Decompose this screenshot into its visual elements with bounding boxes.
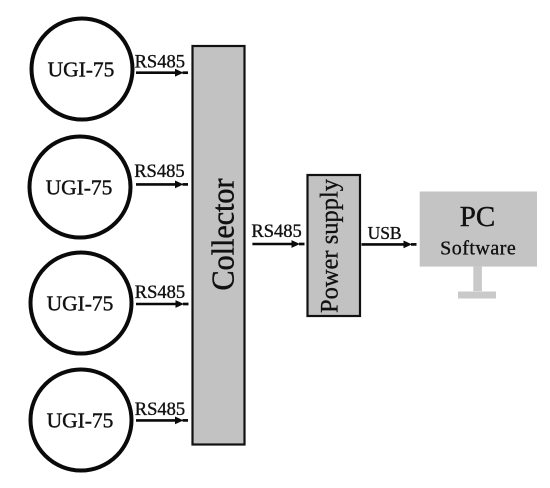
arrow row 1 bbox=[136, 71, 177, 74]
svg-text:RS485: RS485 bbox=[135, 400, 185, 420]
svg-text:RS485: RS485 bbox=[251, 222, 301, 242]
Power supply box bbox=[308, 175, 361, 316]
svg-text:RS485: RS485 bbox=[134, 162, 184, 182]
PC monitor screen bbox=[420, 192, 537, 267]
Collector box bbox=[193, 46, 245, 445]
svg-text:RS485: RS485 bbox=[135, 283, 185, 303]
svg-text:USB: USB bbox=[368, 223, 402, 243]
svg-text:UGI-75: UGI-75 bbox=[48, 58, 115, 82]
svg-text:Software: Software bbox=[440, 238, 516, 260]
svg-text:Collector: Collector bbox=[205, 178, 241, 290]
arrow collector to power supply bbox=[252, 243, 293, 246]
monitor base bbox=[458, 292, 496, 299]
arrow row 2 bbox=[136, 183, 177, 186]
svg-text:UGI-75: UGI-75 bbox=[46, 176, 113, 200]
svg-text:UGI-75: UGI-75 bbox=[47, 292, 114, 316]
sensor circle UGI-75 #1 bbox=[32, 19, 133, 120]
svg-text:RS485: RS485 bbox=[135, 53, 185, 73]
svg-text:UGI-75: UGI-75 bbox=[47, 409, 114, 433]
sensor circle UGI-75 #2 bbox=[30, 137, 131, 238]
sensor circle UGI-75 #4 bbox=[31, 370, 132, 471]
svg-text:Power supply: Power supply bbox=[317, 179, 344, 313]
arrow row 4 bbox=[136, 419, 177, 422]
monitor stand bbox=[473, 267, 482, 292]
sensor circle UGI-75 #3 bbox=[31, 253, 132, 354]
svg-text:PC: PC bbox=[460, 201, 495, 233]
arrow row 3 bbox=[136, 303, 177, 306]
arrow power supply to PC bbox=[362, 243, 406, 246]
